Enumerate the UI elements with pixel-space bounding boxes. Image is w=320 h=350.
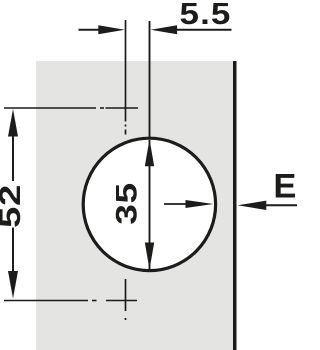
dimension 52 arrow up: [8, 109, 18, 137]
cup edge arrow (points right to cup rim): [164, 203, 186, 205]
cup hole circle (35 mm): [83, 138, 215, 270]
dimension 5.5 right arrow: [176, 29, 232, 31]
cup-hole centerline (vertical extension above circle): [149, 21, 151, 138]
dimension 52 line (vertical): [12, 134, 14, 181]
screw-hole centerline (vertical, dash-dot): [125, 20, 127, 320]
svg-text:52: 52: [0, 184, 27, 228]
svg-text:E: E: [273, 167, 296, 205]
panel (door) gray body: [36, 61, 236, 350]
dimension 35 arrow down: [145, 243, 154, 270]
dimension 52 arrow down: [8, 271, 18, 299]
cross mark: top screw hole: [106, 107, 139, 109]
svg-text:35: 35: [111, 182, 144, 225]
svg-text:5.5: 5.5: [180, 0, 232, 31]
cross mark: bottom screw hole: [106, 300, 137, 302]
dimension 5.5 left arrow: [79, 29, 101, 31]
dimension 35 line (vertical inside cup): [149, 140, 151, 269]
extension line through top screw hole: [4, 107, 96, 109]
panel front edge (thick line): [233, 61, 237, 350]
dimension 35 arrow up: [145, 139, 154, 166]
extension line through bottom screw hole: [4, 300, 88, 302]
dimension E arrow (points left to panel edge): [264, 204, 297, 206]
